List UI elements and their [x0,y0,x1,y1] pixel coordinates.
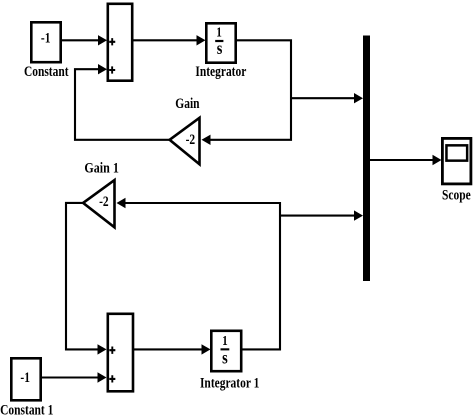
svg-text:Constant: Constant [24,63,69,80]
svg-text:Integrator 1: Integrator 1 [200,374,259,391]
svg-text:Scope: Scope [442,186,471,203]
svg-text:Gain: Gain [175,95,200,112]
svg-text:Integrator: Integrator [195,63,246,80]
svg-text:Gain 1: Gain 1 [84,160,118,176]
svg-text:-2: -2 [186,131,196,148]
svg-text:-1: -1 [41,29,51,46]
svg-text:-2: -2 [99,193,109,210]
svg-text:Constant 1: Constant 1 [0,401,53,416]
svg-text:-1: -1 [20,369,30,386]
